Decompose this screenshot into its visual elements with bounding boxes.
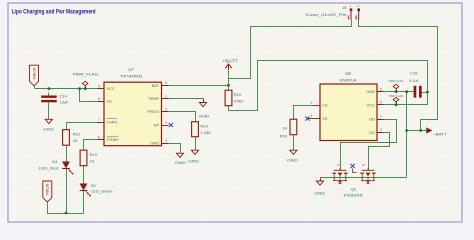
svg-text:PWR_FLAG: PWR_FLAG xyxy=(389,79,404,83)
svg-text:Q2: Q2 xyxy=(351,186,357,191)
svg-text:0.1uf: 0.1uf xyxy=(409,78,419,83)
svg-text:Conn_01x02_Pin: Conn_01x02_Pin xyxy=(306,12,347,17)
svg-text:PROG: PROG xyxy=(147,109,159,114)
svg-text:TD: TD xyxy=(322,116,327,121)
svg-text:9: 9 xyxy=(165,121,167,125)
svg-text:1.25K: 1.25K xyxy=(201,130,212,135)
svg-text:+BATT: +BATT xyxy=(222,59,238,64)
svg-text:7: 7 xyxy=(98,118,100,122)
svg-text:3: 3 xyxy=(165,139,167,143)
svg-text:BAT: BAT xyxy=(152,83,160,88)
svg-text:R13: R13 xyxy=(90,152,98,157)
svg-text:10uF: 10uF xyxy=(60,100,70,105)
svg-text:GND: GND xyxy=(366,89,375,94)
svg-text:U8: U8 xyxy=(345,71,351,76)
svg-text:R14: R14 xyxy=(201,124,209,129)
svg-text:4: 4 xyxy=(98,85,100,89)
svg-text:5: 5 xyxy=(165,81,167,85)
svg-text:6: 6 xyxy=(380,87,382,91)
svg-text:5: 5 xyxy=(380,100,382,104)
svg-text:8: 8 xyxy=(98,97,100,101)
svg-text:VCC: VCC xyxy=(107,86,116,91)
svg-text:4: 4 xyxy=(311,114,313,118)
svg-text:CHRG: CHRG xyxy=(107,120,118,125)
svg-text:1K: 1K xyxy=(90,158,95,163)
svg-text:PWR_FLAG: PWR_FLAG xyxy=(389,94,404,98)
svg-text:EP: EP xyxy=(154,123,160,128)
svg-text:GND: GND xyxy=(314,191,325,195)
svg-text:VBUS: VBUS xyxy=(46,184,50,196)
svg-text:GND: GND xyxy=(150,141,159,146)
svg-text:DW01A: DW01A xyxy=(340,77,357,82)
svg-text:R12: R12 xyxy=(73,132,81,137)
svg-text:CS: CS xyxy=(322,103,328,108)
svg-text:1: 1 xyxy=(165,94,167,98)
svg-text:D5: D5 xyxy=(91,183,97,188)
svg-text:Lipo Charging and Pwr Manageme: Lipo Charging and Pwr Management xyxy=(12,9,96,16)
svg-text:R15: R15 xyxy=(234,92,242,97)
svg-text:OD: OD xyxy=(369,117,375,122)
svg-text:24: 24 xyxy=(283,126,288,131)
svg-text:1K: 1K xyxy=(73,138,78,143)
svg-text:1: 1 xyxy=(380,115,382,119)
svg-text:C14: C14 xyxy=(60,93,68,98)
svg-text:−BATT: −BATT xyxy=(433,131,448,136)
svg-text:D4: D4 xyxy=(52,159,58,164)
svg-text:LED_Green: LED_Green xyxy=(91,188,113,193)
svg-text:2: 2 xyxy=(311,101,313,105)
svg-text:2: 2 xyxy=(165,107,167,111)
svg-text:470Ω: 470Ω xyxy=(234,99,244,104)
svg-text:VCC: VCC xyxy=(367,102,376,107)
svg-text:C15: C15 xyxy=(410,71,418,76)
svg-text:FS8205: FS8205 xyxy=(344,192,364,197)
svg-text:TEMP: TEMP xyxy=(148,96,159,101)
svg-text:PWR_FLAG: PWR_FLAG xyxy=(73,72,99,76)
svg-text:STDBY: STDBY xyxy=(107,137,120,142)
svg-text:LED_Red: LED_Red xyxy=(39,165,59,170)
svg-text:U7: U7 xyxy=(128,67,134,72)
svg-text:GND: GND xyxy=(199,114,210,118)
svg-text:GND: GND xyxy=(188,159,199,163)
svg-text:OC: OC xyxy=(369,130,375,135)
svg-text:CE: CE xyxy=(107,99,113,104)
svg-text:VBUS: VBUS xyxy=(32,68,36,80)
svg-text:GND: GND xyxy=(175,161,186,165)
svg-text:6: 6 xyxy=(98,135,100,139)
svg-text:GND: GND xyxy=(287,159,298,163)
svg-text:3: 3 xyxy=(380,128,382,132)
svg-text:R16: R16 xyxy=(280,134,288,139)
svg-text:TP4056: TP4056 xyxy=(120,74,143,79)
svg-text:GND: GND xyxy=(43,128,54,132)
